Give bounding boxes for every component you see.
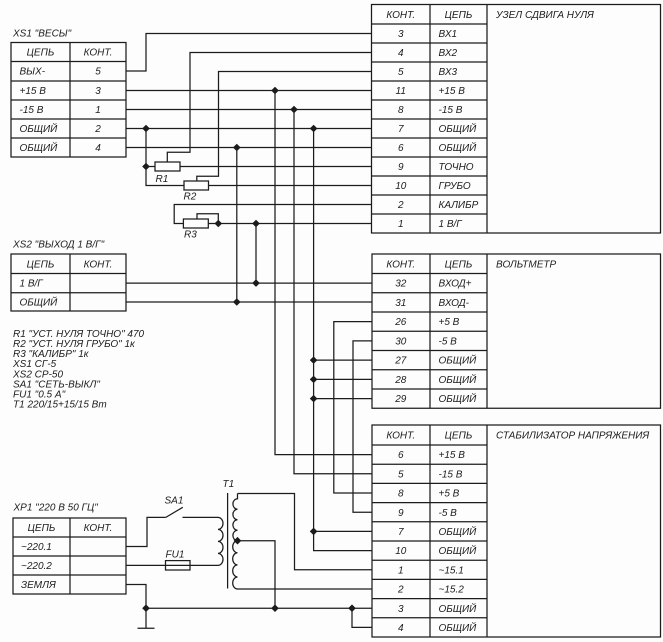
svg-text:УЗЕЛ СДВИГА НУЛЯ: УЗЕЛ СДВИГА НУЛЯ	[495, 10, 594, 21]
svg-text:ЦЕПЬ: ЦЕПЬ	[445, 10, 473, 21]
svg-text:ВЫХ-: ВЫХ-	[20, 67, 46, 78]
svg-text:СТАБИЛИЗАТОР НАПРЯЖЕНИЯ: СТАБИЛИЗАТОР НАПРЯЖЕНИЯ	[496, 431, 649, 442]
svg-text:9: 9	[398, 508, 404, 519]
svg-text:5: 5	[398, 67, 404, 78]
wire ОБЩИЙ stub to voltmeter pin 27	[314, 359, 372, 361]
svg-text:2: 2	[94, 124, 101, 135]
svg-text:ЦЕПЬ: ЦЕПЬ	[27, 259, 55, 270]
node +15 В junction	[272, 87, 278, 93]
svg-text:ОБЩИЙ: ОБЩИЙ	[439, 525, 478, 538]
wire -15 В branch to stabilizer pin 5	[294, 110, 372, 474]
svg-text:1 В/Г: 1 В/Г	[20, 279, 45, 290]
wire ЗЕМЛЯ to ground	[126, 585, 146, 629]
transformer T1 secondary winding lower half	[233, 541, 238, 589]
wire bottom rail branch to stabilizer pin 4	[352, 608, 372, 627]
wire ОБЩИЙ stub to stabilizer pin 7	[314, 530, 372, 532]
svg-text:ОБЩИЙ: ОБЩИЙ	[20, 141, 59, 154]
svg-text:ЗЕМЛЯ: ЗЕМЛЯ	[21, 580, 56, 591]
block УЗЕЛ СДВИГА НУЛЯ table frame	[372, 5, 661, 234]
svg-text:+5 В: +5 В	[439, 317, 460, 328]
svg-text:6: 6	[398, 450, 404, 461]
svg-text:R1: R1	[156, 174, 169, 185]
wire R2 right lead to ГРУБО	[209, 185, 372, 187]
node ОБЩИЙ-4 junction	[234, 144, 240, 150]
node T1 center tap	[234, 538, 240, 544]
svg-text:КОНТ.: КОНТ.	[84, 523, 113, 534]
wire ОБЩИЙ stub to voltmeter pin 29	[314, 398, 372, 400]
svg-text:1 В/Г: 1 В/Г	[439, 219, 464, 230]
svg-text:ВХ2: ВХ2	[439, 48, 458, 59]
svg-text:-15 В: -15 В	[20, 105, 44, 116]
connector table XS1	[11, 43, 126, 158]
svg-text:ЦЕПЬ: ЦЕПЬ	[445, 431, 473, 442]
svg-text:ОБЩИЙ: ОБЩИЙ	[439, 373, 478, 386]
wire +15 В branch to stabilizer pin 6	[275, 91, 372, 455]
connector table ХР1	[13, 518, 126, 594]
svg-text:ЦЕПЬ: ЦЕПЬ	[27, 48, 55, 59]
svg-text:ОБЩИЙ: ОБЩИЙ	[439, 602, 478, 615]
svg-text:-15 В: -15 В	[439, 105, 463, 116]
node ground junction	[143, 605, 149, 611]
wire ОБЩИЙ stub to voltmeter pin 28	[314, 378, 372, 380]
svg-text:ТОЧНО: ТОЧНО	[439, 162, 474, 173]
svg-text:FU1: FU1	[166, 550, 185, 561]
wire ОБЩИЙ-4 branch down to ВХОД-	[236, 148, 238, 303]
svg-text:5: 5	[95, 67, 101, 78]
svg-text:30: 30	[395, 336, 407, 347]
block СТАБИЛИЗАТОР НАПРЯЖЕНИЯ table frame	[372, 425, 661, 637]
svg-text:+15 В: +15 В	[439, 450, 466, 461]
svg-text:4: 4	[95, 143, 101, 154]
switch SA1 blade	[166, 507, 183, 517]
node ВХОД- junction	[234, 299, 240, 305]
wire common bottom rail to stabilizer pin 3	[146, 607, 372, 609]
svg-text:R2: R2	[184, 192, 197, 203]
wire ВХ2 to R1 wiper	[167, 53, 371, 163]
svg-text:XS1 "ВЕСЫ": XS1 "ВЕСЫ"	[12, 29, 72, 40]
svg-text:Т1 220/15+15/15 Вт: Т1 220/15+15/15 Вт	[13, 400, 107, 411]
svg-text:1: 1	[95, 105, 101, 116]
wire T1 secondary top to ~15.1	[238, 494, 373, 570]
wire +5 В voltmeter to stabilizer pin 8	[334, 322, 372, 493]
wire -15 В	[126, 109, 372, 111]
svg-text:ВОЛЬТМЕТР: ВОЛЬТМЕТР	[496, 259, 556, 270]
transformer T1 primary winding	[218, 517, 223, 565]
svg-text:~15.1: ~15.1	[439, 565, 464, 576]
svg-text:ВХ3: ВХ3	[439, 67, 458, 78]
svg-text:1: 1	[398, 565, 404, 576]
svg-text:7: 7	[398, 527, 404, 538]
svg-text:-15 В: -15 В	[439, 469, 463, 480]
svg-text:КАЛИБР: КАЛИБР	[439, 200, 479, 211]
svg-text:ОБЩИЙ: ОБЩИЙ	[20, 296, 59, 309]
svg-text:ВХОД-: ВХОД-	[439, 298, 470, 309]
wire R1 left lead	[146, 166, 155, 168]
svg-text:ОБЩИЙ: ОБЩИЙ	[439, 354, 478, 367]
svg-text:5: 5	[398, 469, 404, 480]
svg-text:3: 3	[398, 604, 404, 615]
svg-text:7: 7	[398, 124, 404, 135]
svg-text:28: 28	[394, 375, 407, 386]
svg-text:29: 29	[394, 394, 407, 405]
transformer T1 core	[227, 493, 229, 589]
wire ~220.2 to fuse FU1	[126, 564, 218, 566]
wire SA1 to T1 primary	[183, 516, 219, 518]
svg-text:-5 В: -5 В	[439, 336, 458, 347]
svg-text:3: 3	[398, 29, 404, 40]
node bottom rail junction at branch	[349, 605, 355, 611]
svg-text:ВХ1: ВХ1	[439, 29, 458, 40]
svg-text:27: 27	[394, 356, 407, 367]
svg-text:6: 6	[398, 143, 404, 154]
svg-text:~15.2: ~15.2	[439, 585, 465, 596]
svg-text:ГРУБО: ГРУБО	[439, 181, 471, 192]
svg-text:8: 8	[398, 105, 404, 116]
svg-text:11: 11	[396, 86, 406, 97]
svg-text:26: 26	[394, 317, 407, 328]
node -15 В junction	[291, 106, 297, 112]
svg-text:+15 В: +15 В	[20, 86, 47, 97]
svg-text:КОНТ.: КОНТ.	[386, 259, 415, 270]
svg-text:ОБЩИЙ: ОБЩИЙ	[439, 621, 478, 634]
svg-text:10: 10	[395, 546, 407, 557]
node R1 left junction	[143, 163, 149, 169]
fuse FU1 body	[166, 561, 191, 570]
node center tap junction on bottom rail	[272, 605, 278, 611]
svg-text:~220.2: ~220.2	[21, 561, 52, 572]
wire ОБЩИЙ (XS1 pin 2)	[126, 128, 372, 130]
svg-text:~220.1: ~220.1	[21, 542, 52, 553]
node ВХОД+ junction	[253, 280, 259, 286]
svg-text:ЦЕПЬ: ЦЕПЬ	[28, 523, 56, 534]
wire XS2 ОБЩИЙ to ВХОД-	[126, 301, 372, 303]
svg-text:ОБЩИЙ: ОБЩИЙ	[20, 122, 59, 135]
transformer T1 secondary winding upper half	[233, 494, 238, 541]
resistor R2 body	[184, 181, 209, 190]
svg-text:-5 В: -5 В	[439, 508, 458, 519]
svg-text:2: 2	[397, 200, 404, 211]
resistor R3 body	[183, 219, 208, 228]
svg-text:ОБЩИЙ: ОБЩИЙ	[439, 122, 478, 135]
node 1 В/Г junction	[253, 220, 259, 226]
svg-text:+15 В: +15 В	[439, 86, 466, 97]
svg-text:8: 8	[398, 489, 404, 500]
svg-text:SA1: SA1	[165, 496, 184, 507]
wire T1 center tap to bottom rail	[238, 541, 276, 609]
wire КАЛИБР to R3 left lead	[174, 205, 371, 224]
svg-text:КОНТ.: КОНТ.	[84, 259, 113, 270]
wire R3 wiper to right lead	[197, 214, 218, 224]
wire ВХ3 to R2 wiper	[197, 72, 372, 182]
resistor R1 body	[155, 162, 180, 171]
svg-text:R3: R3	[184, 230, 197, 241]
wire 1 В/Г branch down	[255, 224, 257, 284]
wire -5 В voltmeter to stabilizer pin 9	[353, 341, 372, 512]
svg-text:ОБЩИЙ: ОБЩИЙ	[439, 392, 478, 405]
svg-text:9: 9	[398, 162, 404, 173]
svg-text:ОБЩИЙ: ОБЩИЙ	[439, 544, 478, 557]
connector table XS2	[11, 254, 126, 311]
svg-text:4: 4	[398, 48, 404, 59]
wire +15 В	[126, 90, 372, 92]
svg-text:Т1: Т1	[223, 479, 235, 490]
svg-text:КОНТ.: КОНТ.	[386, 431, 415, 442]
svg-text:32: 32	[395, 279, 407, 290]
svg-text:31: 31	[395, 298, 406, 309]
svg-text:ХР1 "220 В 50 ГЦ": ХР1 "220 В 50 ГЦ"	[13, 503, 99, 514]
wire R3 right lead to 1 В/Г	[208, 223, 371, 225]
svg-text:+5 В: +5 В	[439, 489, 460, 500]
wire ОБЩИЙ branch to R1/R2 left	[146, 129, 184, 186]
wire XS2 1 В/Г to ВХОД+	[126, 282, 372, 284]
wire T1 secondary bottom to ~15.2	[238, 588, 373, 590]
block ВОЛЬТМЕТР table frame	[372, 254, 661, 408]
wire R1 right lead to ТОЧНО	[180, 166, 372, 168]
svg-text:3: 3	[95, 86, 101, 97]
wire ~220.1 to switch SA1	[126, 517, 166, 546]
svg-text:КОНТ.: КОНТ.	[84, 48, 113, 59]
svg-text:10: 10	[395, 181, 407, 192]
node ОБЩИЙ junction right	[311, 125, 317, 131]
svg-text:4: 4	[398, 623, 404, 634]
wire ОБЩИЙ trunk down right side	[314, 129, 372, 551]
svg-text:2: 2	[397, 585, 404, 596]
ground symbol	[138, 627, 155, 629]
svg-text:ВХОД+: ВХОД+	[439, 279, 472, 290]
wire ОБЩИЙ (XS1 pin 4)	[126, 147, 372, 149]
svg-text:XS2 "ВЫХОД 1 В/Г": XS2 "ВЫХОД 1 В/Г"	[12, 240, 105, 251]
svg-text:ОБЩИЙ: ОБЩИЙ	[439, 141, 478, 154]
svg-text:ЦЕПЬ: ЦЕПЬ	[445, 259, 473, 270]
svg-text:КОНТ.: КОНТ.	[386, 10, 415, 21]
svg-text:1: 1	[398, 219, 404, 230]
node ОБЩИЙ junction at R1 column	[143, 125, 149, 131]
wire ВЫХ- to ВХ1	[126, 34, 372, 72]
node R3 wiper junction	[215, 220, 221, 226]
